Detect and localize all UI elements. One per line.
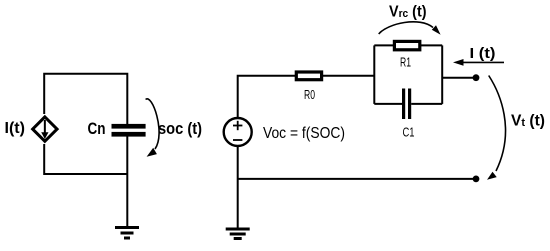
svg-text:I (t): I (t) — [470, 45, 496, 62]
svg-text:Vt (t): Vt (t) — [511, 112, 545, 129]
svg-text:C1: C1 — [403, 126, 415, 140]
svg-text:Vrc (t): Vrc (t) — [389, 3, 426, 20]
svg-text:soc (t): soc (t) — [158, 120, 202, 138]
svg-text:I(t): I(t) — [5, 120, 26, 137]
svg-text:Cn: Cn — [88, 119, 106, 138]
svg-text:R0: R0 — [304, 88, 315, 102]
svg-text:R1: R1 — [400, 56, 411, 70]
svg-text:Voc = f(SOC): Voc = f(SOC) — [263, 125, 345, 142]
